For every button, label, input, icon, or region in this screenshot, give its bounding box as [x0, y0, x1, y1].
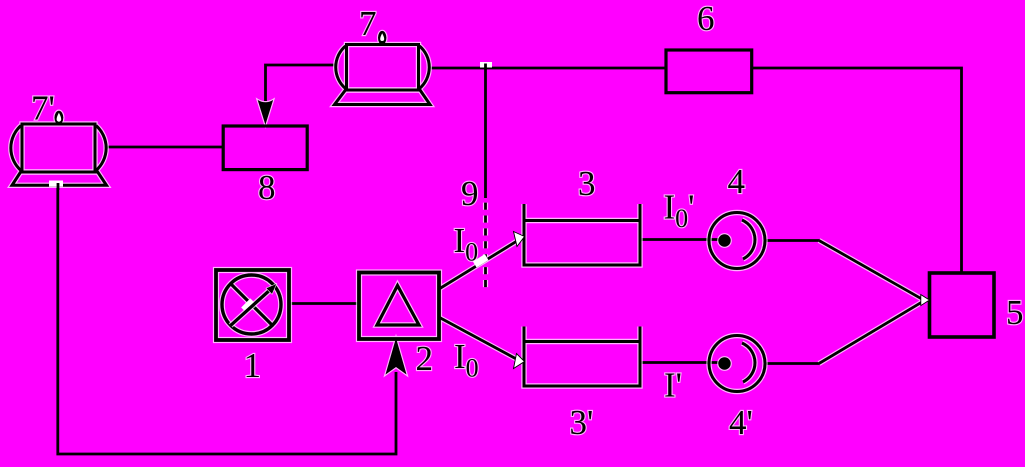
- svg-text:4: 4: [728, 162, 746, 201]
- svg-text:5: 5: [1006, 293, 1024, 332]
- svg-text:7: 7: [359, 4, 377, 43]
- svg-text:1: 1: [244, 346, 262, 385]
- svg-text:3: 3: [578, 164, 596, 203]
- svg-text:8: 8: [258, 168, 276, 207]
- svg-text:9: 9: [461, 174, 479, 213]
- svg-text:7': 7': [31, 89, 55, 128]
- svg-text:4': 4': [729, 403, 753, 442]
- svg-text:I': I': [664, 366, 682, 405]
- svg-text:2: 2: [416, 339, 434, 378]
- svg-text:6: 6: [697, 0, 715, 38]
- svg-text:3': 3': [570, 403, 594, 442]
